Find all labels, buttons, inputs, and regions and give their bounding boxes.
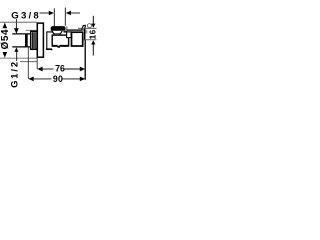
outlet upper edge from body to spout: [66, 26, 68, 30]
G3/8 leader arrow down to nut face line: [15, 19, 17, 29]
right reference line (wall/outlet plane): [84, 40, 86, 80]
svg-text:16: 16: [88, 29, 98, 39]
pipe diameter dim up arrow + G1/2 leader: [14, 47, 18, 52]
screw circle: [87, 24, 91, 28]
76 dimension line: [37, 64, 85, 74]
handle knob black band: [51, 26, 66, 31]
G1/2 pipe bottom edge: [12, 46, 31, 48]
G1/2 pipe (wall connection) top edge: [12, 33, 31, 35]
16-dim top extension line: [78, 27, 97, 29]
Ø54 bottom extension line: [0, 57, 37, 59]
svg-text:76: 76: [55, 64, 65, 74]
wall plane dark band on pipe: [25, 34, 28, 47]
dimension arrow right (G3/8 dim, left side): [40, 11, 54, 15]
leader arrowhead to pipe top: [14, 28, 19, 34]
svg-text:Ø54: Ø54: [0, 29, 11, 50]
90 dimension line: [28, 74, 85, 84]
svg-text:G1/2: G1/2: [8, 60, 19, 88]
16-dim upper tail + down arrow: [92, 16, 94, 25]
extension line VB: [64, 8, 66, 26]
16-dim up arrow + lower tail: [91, 40, 95, 44]
hose union nut (square): [72, 32, 83, 46]
nut face extension line: [26, 29, 37, 31]
dimension arrow left (G3/8 dim, right side): [66, 11, 80, 15]
rosette Ø54 escutcheon: [37, 23, 43, 57]
Ø54 dimension arrows: [3, 23, 8, 29]
spout tip stub: [86, 30, 88, 34]
background: [0, 0, 100, 100]
extension line VA: [53, 8, 55, 26]
90-dim extension line (wall plane): [27, 47, 29, 79]
svg-text:G3/8: G3/8: [11, 10, 41, 21]
16-dim bottom extension line: [83, 39, 97, 41]
step between body and union nut: [67, 32, 72, 38]
valve body: [52, 35, 68, 46]
Ø54 top extension line: [0, 21, 37, 23]
spout end cap: [84, 28, 86, 41]
outlet lower thick shoulder: [64, 31, 68, 33]
76-dim extension line (rosette face): [36, 58, 38, 69]
spout chamfer flag: [82, 25, 86, 30]
knurled nut: [31, 31, 37, 49]
connector bottom thick edge: [46, 48, 52, 50]
auxiliary reference line at pipe level: [20, 61, 37, 63]
connector sleeve between rosette and body: [47, 32, 53, 49]
nut knurl hatching: [32, 32, 34, 48]
knob skirt: [52, 31, 54, 34]
knob stem: [53, 34, 55, 35]
